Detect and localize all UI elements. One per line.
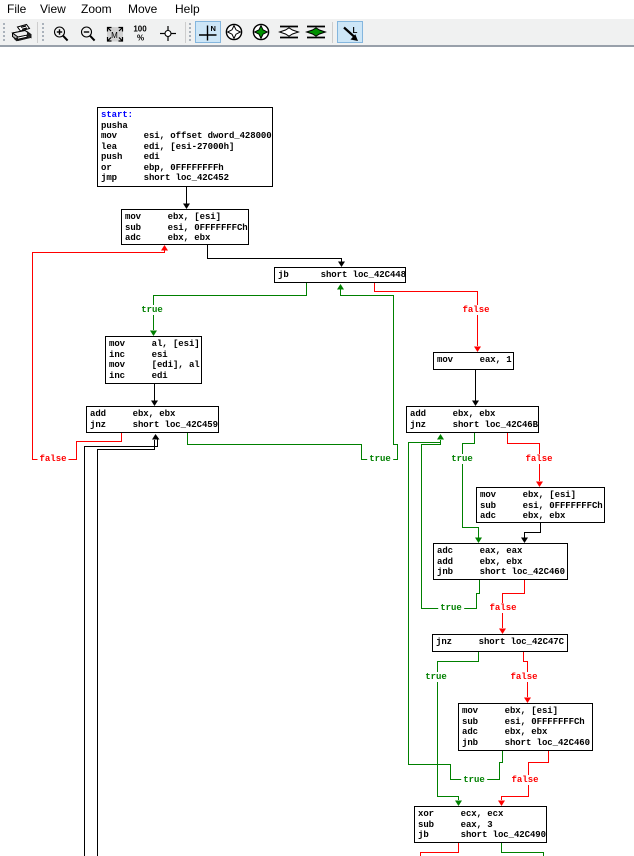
label true on B11 loop edge bbox=[461, 775, 487, 785]
label false on B11-B12 edge bbox=[509, 775, 540, 785]
wire B5 true loop to B3 bbox=[188, 289, 398, 460]
toolbar icon: circle layout green bbox=[253, 24, 268, 39]
block B4 bbox=[105, 336, 202, 384]
wire B8 to B9 bbox=[525, 523, 541, 538]
wire B1 to B2 bbox=[186, 187, 188, 204]
block B1 start bbox=[97, 107, 273, 187]
toolbar icon: zoom out bbox=[82, 27, 95, 41]
label true on B7-B9 edge bbox=[449, 454, 475, 464]
arrowhead into B2 bottom bbox=[161, 245, 168, 251]
wire B3 true to B4 bbox=[154, 283, 307, 330]
wire offscreen loop B into B5 bottom bbox=[98, 440, 155, 856]
wire B4 to B5 bbox=[154, 384, 156, 401]
wire offscreen loop A into B5 bottom bbox=[85, 439, 158, 856]
block B11 bbox=[458, 703, 593, 751]
arrowhead into B5 top bbox=[151, 401, 158, 407]
toolbar icon: fit window (M) bbox=[107, 27, 123, 42]
label false on B5 loop edge bbox=[37, 454, 68, 464]
label false on B3-B6 edge bbox=[460, 305, 491, 315]
label true on B3-B4 edge bbox=[139, 305, 165, 315]
wire B5 false loop to B2 bbox=[33, 250, 165, 460]
arrowhead into B5 bottom bbox=[152, 434, 160, 440]
wire B3 false to B6 bbox=[375, 283, 478, 346]
label false on B9-B10 edge bbox=[487, 603, 518, 613]
block B3 jb bbox=[274, 267, 406, 283]
arrowhead into B7 top bbox=[472, 401, 479, 407]
arrowhead into B3 top bbox=[338, 262, 345, 268]
block B7 bbox=[406, 406, 539, 433]
block B6 bbox=[433, 352, 514, 370]
label false on B10-B11 edge bbox=[508, 672, 539, 682]
toolbar selected button: edge mode bbox=[337, 21, 363, 43]
block B10 jnz bbox=[432, 634, 568, 652]
label false on B7-B8 edge bbox=[523, 454, 554, 464]
toolbar selected button: nodes mode bbox=[195, 21, 221, 43]
toolbar icon: wide layout green bbox=[307, 27, 326, 38]
wire B9 true loop to B7 bbox=[422, 440, 480, 609]
arrowhead into B4 top bbox=[150, 331, 157, 337]
toolbar icon: zoom 100% bbox=[133, 25, 147, 43]
label true on B9 loop edge bbox=[438, 603, 464, 613]
arrowhead into B10 top bbox=[499, 629, 506, 635]
block B12 bbox=[414, 806, 547, 843]
menu bar bbox=[0, 0, 634, 19]
toolbar bbox=[0, 19, 634, 47]
block B2 bbox=[121, 209, 249, 245]
wire B7 true to B9 bbox=[463, 433, 479, 538]
arrowhead into B8 top bbox=[536, 482, 543, 488]
toolbar icon: wide layout white bbox=[280, 27, 299, 38]
wire B12 false exit offscreen bbox=[421, 843, 459, 856]
label true on B5 loop edge bbox=[367, 454, 393, 464]
block B9 bbox=[433, 543, 568, 580]
arrowhead green into B12 top bbox=[455, 801, 462, 807]
wire B7 false to B8 bbox=[508, 433, 540, 481]
toolbar icon: center point bbox=[160, 26, 176, 41]
wire B10 true to B12 bbox=[438, 652, 479, 800]
arrowhead black into B9 top bbox=[521, 538, 528, 544]
arrowhead into B6 top bbox=[474, 347, 481, 353]
toolbar icon: follow edge arrow with L bbox=[344, 26, 358, 41]
arrowhead into B3 bottom bbox=[337, 284, 344, 290]
block B8 bbox=[476, 487, 605, 523]
toolbar icon: zoom in bbox=[55, 27, 68, 41]
wire B6 to B7 bbox=[475, 370, 477, 401]
arrowhead into B2 top bbox=[183, 204, 190, 210]
toolbar icon: axes with N bbox=[199, 24, 217, 41]
arrowhead into B11 top bbox=[524, 698, 531, 704]
wire B2 to B3 bbox=[208, 245, 342, 262]
arrowhead green into B9 top bbox=[475, 538, 482, 544]
wire B11 false to B12 bbox=[502, 751, 549, 800]
wire B12 true exit offscreen bbox=[502, 843, 544, 856]
arrowhead red into B12 top bbox=[498, 801, 505, 807]
label true on B10-B12 edge bbox=[423, 672, 449, 682]
wire B9 false to B10 bbox=[503, 580, 525, 628]
arrowhead into B7 bottom bbox=[437, 434, 444, 440]
block B5 bbox=[86, 406, 219, 433]
wire B10 false to B11 bbox=[524, 652, 528, 697]
toolbar icon: circle layout white bbox=[226, 24, 241, 39]
wire B11 true loop to B7 bbox=[409, 440, 503, 780]
toolbar icon: printer bbox=[13, 25, 32, 42]
